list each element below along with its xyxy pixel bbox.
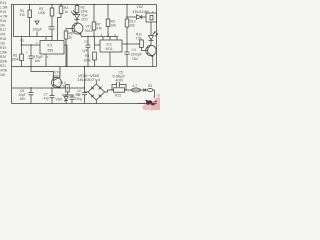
fuse — [132, 88, 141, 92]
svg-text:C2: C2 — [84, 40, 88, 44]
op-amp IC1 555 box — [40, 41, 64, 55]
wire R4 bottom — [58, 14, 62, 41]
fuse FU2 — [147, 89, 153, 92]
red stamp — [138, 94, 163, 112]
svg-text:IC1: IC1 — [48, 44, 53, 48]
transistor VT2 — [146, 45, 156, 55]
svg-text:47k: 47k — [20, 13, 26, 17]
svg-text:100k: 100k — [84, 59, 92, 63]
svg-text:R18: R18 — [0, 37, 6, 41]
switch — [141, 89, 148, 91]
wire R3 to C1 — [51, 16, 53, 27]
svg-text:R17: R17 — [0, 28, 6, 32]
resistor R10 — [125, 19, 129, 27]
svg-text:4011: 4011 — [106, 47, 113, 51]
resistor R12 — [114, 88, 125, 92]
svg-text:1N4007×4: 1N4007×4 — [77, 78, 100, 82]
junction dots — [21, 4, 128, 96]
svg-text:VD2: VD2 — [137, 5, 144, 9]
svg-text:16V: 16V — [20, 97, 27, 101]
wire bottom border over stamp — [138, 103, 157, 105]
svg-text:100μF: 100μF — [33, 28, 42, 32]
wire relay to VD3 — [150, 22, 152, 36]
resistor R9 — [106, 19, 110, 27]
diode VD2 — [127, 16, 137, 18]
wire IC1 top pin — [45, 37, 47, 41]
svg-text:220μ: 220μ — [75, 97, 83, 101]
svg-text:100k: 100k — [12, 58, 20, 62]
wire R2 top — [76, 5, 78, 6]
resistor R19 — [21, 37, 23, 55]
svg-text:K: K — [152, 10, 154, 14]
wire C1 to IC1 — [51, 29, 53, 41]
power strip top rail — [12, 87, 85, 89]
svg-text:R12: R12 — [115, 94, 121, 98]
svg-text:R2: R2 — [148, 84, 152, 88]
svg-text:16V: 16V — [35, 59, 42, 63]
svg-text:47μ: 47μ — [44, 97, 50, 101]
capacitor C3 — [30, 45, 32, 56]
frame bottom border — [12, 103, 158, 105]
capacitor 100uF marker — [35, 21, 39, 25]
capacitor C4 — [125, 51, 130, 53]
svg-text:1M: 1M — [0, 24, 5, 28]
wire IC2 left pin — [95, 44, 101, 46]
capacitor C1 — [49, 26, 55, 28]
zener VD9 — [65, 95, 67, 97]
wire VT1 emitter down — [80, 34, 82, 36]
resistor R13 — [66, 85, 69, 93]
frame right border — [156, 5, 158, 67]
svg-text:2CU: 2CU — [81, 18, 88, 22]
svg-text:4.7: 4.7 — [133, 84, 138, 88]
svg-text:120k: 120k — [38, 11, 46, 15]
resistor R1 — [28, 10, 32, 18]
svg-text:1000μF: 1000μF — [131, 53, 142, 57]
svg-text:1k: 1k — [69, 36, 73, 40]
svg-text:555: 555 — [48, 49, 54, 53]
wire R1 bottom — [29, 18, 31, 37]
resistor R4 — [59, 6, 63, 14]
frame left border — [11, 5, 13, 104]
svg-text:4.7M: 4.7M — [0, 15, 8, 19]
wire IC2 output right — [122, 43, 142, 45]
svg-text:IC2: IC2 — [107, 43, 112, 47]
transistor VT1 — [72, 23, 83, 34]
wire R1 top — [29, 5, 31, 11]
svg-text:9013: 9013 — [85, 29, 93, 33]
svg-text:R14: R14 — [0, 1, 6, 5]
svg-text:VT1: VT1 — [86, 25, 92, 29]
svg-text:47μ: 47μ — [76, 93, 81, 97]
transistor VT3 — [31, 67, 54, 80]
svg-text:47k: 47k — [97, 27, 103, 31]
wire R4 top — [60, 5, 62, 7]
svg-text:1.2k: 1.2k — [60, 85, 67, 89]
svg-text:R19: R19 — [0, 46, 6, 50]
resistor R6 — [65, 29, 67, 32]
resistor R3 — [50, 8, 54, 16]
svg-text:R8: R8 — [85, 54, 89, 58]
wire VD3 to VT2 — [150, 41, 152, 46]
resistor R11 — [140, 40, 144, 48]
capacitor C6 — [30, 88, 32, 93]
svg-text:R20: R20 — [0, 55, 6, 59]
wire IC1 pin1 bottom — [45, 54, 47, 67]
wire IC1 pin3 right — [64, 45, 67, 67]
relay K box — [146, 13, 157, 22]
stamp dark marks — [145, 100, 152, 106]
svg-text:16V: 16V — [132, 57, 139, 61]
resistor R7 — [92, 22, 96, 30]
capacitor C2 — [87, 37, 89, 46]
svg-text:R16: R16 — [0, 19, 6, 23]
wire R7 top — [93, 5, 95, 23]
wire R2 to VD4 — [76, 13, 78, 15]
svg-text:400V: 400V — [116, 79, 125, 83]
wire R3 top — [51, 5, 53, 9]
resistor R8 — [94, 37, 96, 51]
wire bridge right — [105, 90, 114, 92]
frame top border — [11, 4, 157, 6]
svg-text:100k: 100k — [0, 51, 8, 55]
svg-text:1M: 1M — [0, 42, 5, 46]
svg-text:R15: R15 — [0, 10, 6, 14]
photodiode VD4 — [75, 15, 80, 20]
svg-text:1.5M: 1.5M — [0, 6, 8, 10]
svg-text:C4: C4 — [132, 48, 136, 52]
wire IC1 pin2 left — [22, 44, 41, 46]
svg-text:10k: 10k — [130, 24, 136, 28]
capacitor C8 — [71, 95, 73, 97]
svg-text:470k: 470k — [0, 69, 8, 73]
svg-text:VD9: VD9 — [56, 98, 63, 102]
svg-text:R21: R21 — [0, 64, 6, 68]
svg-text:7.5k: 7.5k — [136, 36, 143, 40]
wire mid node rail — [81, 36, 118, 38]
resistor R2 — [75, 6, 79, 13]
svg-text:1N4148: 1N4148 — [132, 10, 149, 14]
capacitor C7 — [51, 88, 53, 96]
bridge rectifier VD5-VD8 — [84, 67, 86, 93]
wire VD4 to VT1 collector — [76, 20, 78, 24]
svg-text:1k: 1k — [65, 10, 69, 14]
svg-text:47k: 47k — [0, 33, 6, 37]
LED VD3 — [149, 36, 154, 41]
capacitor C9 — [82, 92, 87, 94]
svg-text:1μF: 1μF — [82, 49, 88, 53]
wire R9 top — [107, 5, 109, 20]
svg-text:10k: 10k — [111, 24, 117, 28]
capacitor C5 parallel branch — [112, 85, 117, 91]
svg-text:3DK9: 3DK9 — [52, 75, 60, 79]
labels — [0, 1, 154, 102]
wire left vertical bus — [14, 5, 53, 37]
svg-text:+: + — [26, 51, 28, 55]
svg-text:R2: R2 — [21, 39, 25, 43]
svg-text:620k: 620k — [0, 60, 8, 64]
wire right column — [126, 5, 128, 20]
ground rail — [12, 66, 157, 68]
IC2 box — [100, 40, 122, 52]
